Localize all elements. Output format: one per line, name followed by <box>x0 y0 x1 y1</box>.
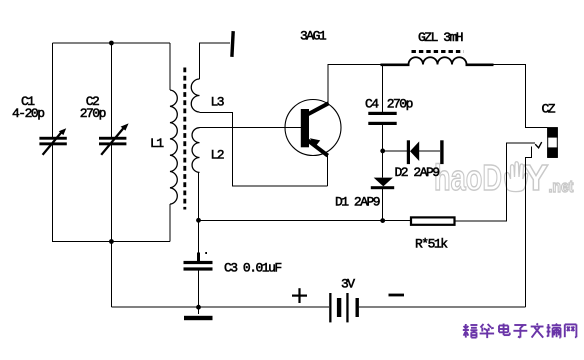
svg-text:L1: L1 <box>150 136 164 151</box>
svg-text:GZL 3mH: GZL 3mH <box>418 30 463 45</box>
svg-text:D2 2AP9: D2 2AP9 <box>395 165 440 180</box>
svg-text:CZ: CZ <box>542 102 556 117</box>
svg-text:C4: C4 <box>365 97 379 112</box>
svg-text:L3: L3 <box>211 95 224 110</box>
svg-text:C3 0.01uF: C3 0.01uF <box>224 260 281 275</box>
svg-text:3AG1: 3AG1 <box>300 28 327 43</box>
svg-text:.net: .net <box>549 177 574 196</box>
svg-text:L2: L2 <box>211 148 224 163</box>
svg-text:haoD: haoD <box>434 157 502 198</box>
svg-text:270p: 270p <box>387 97 413 112</box>
svg-text:D1 2AP9: D1 2AP9 <box>335 195 380 210</box>
svg-text:3V: 3V <box>341 277 355 292</box>
svg-text:270p: 270p <box>80 106 106 121</box>
svg-text:R*51k: R*51k <box>415 237 448 252</box>
svg-text:4-20p: 4-20p <box>12 106 44 121</box>
